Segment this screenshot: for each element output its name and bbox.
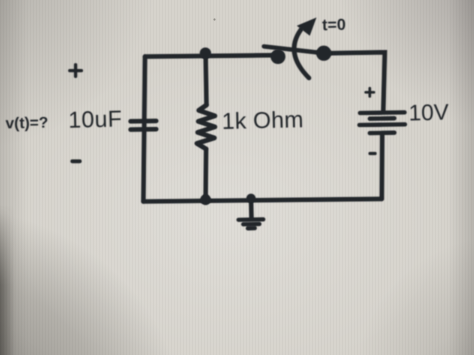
svg-text:t=0: t=0	[322, 17, 346, 35]
dust speck	[213, 18, 215, 20]
svg-text:1k Ohm: 1k Ohm	[222, 106, 304, 134]
battery plate long top	[360, 110, 405, 115]
svg-text:10uF: 10uF	[68, 105, 122, 132]
switch arc arrow	[294, 30, 309, 79]
ground bar 1	[239, 217, 264, 222]
switch left contact dot	[271, 49, 286, 64]
switch blade	[264, 46, 324, 53]
battery polarity minus	[370, 152, 375, 155]
capacitor polarity plus	[70, 65, 82, 77]
switch right contact dot	[316, 46, 331, 61]
capacitor C bottom plate	[131, 127, 157, 132]
battery polarity plus	[366, 88, 374, 96]
svg-text:v(t)=?: v(t)=?	[5, 115, 48, 133]
node dot bottom of resistor	[200, 194, 211, 205]
battery plate short upper	[370, 116, 395, 121]
resistor R zigzag 1k	[197, 105, 215, 149]
wire top right segment and right rail down to battery	[324, 52, 385, 111]
ground bar 2	[243, 222, 259, 227]
switch arrowhead	[297, 18, 317, 36]
battery plate long lower	[359, 122, 405, 127]
node dot ground junction	[246, 194, 255, 203]
wire resistor top lead	[203, 54, 208, 106]
battery plate short bottom	[370, 131, 395, 136]
wire top left segment	[145, 55, 278, 56]
node dot top of resistor	[200, 48, 211, 59]
wire left rail	[143, 57, 145, 202]
capacitor polarity minus	[72, 159, 80, 163]
wire bottom rail	[143, 199, 381, 202]
svg-text:10V: 10V	[408, 100, 449, 126]
ground stem	[249, 199, 254, 220]
wire resistor bottom lead	[203, 149, 208, 200]
ground bar 3	[248, 226, 255, 230]
capacitor C top plate	[131, 119, 157, 124]
wire battery bottom to corner	[379, 135, 384, 199]
